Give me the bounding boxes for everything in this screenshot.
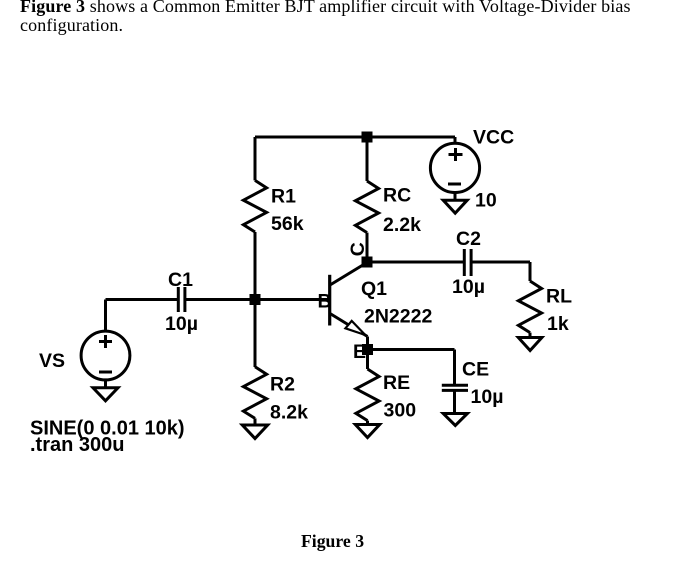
svg-text:RC: RC (383, 185, 411, 207)
svg-text:10: 10 (475, 190, 497, 212)
svg-text:1k: 1k (547, 313, 569, 335)
svg-text:10µ: 10µ (452, 276, 485, 298)
svg-text:C1: C1 (168, 269, 193, 291)
svg-text:Q1: Q1 (361, 278, 387, 300)
svg-text:300: 300 (384, 400, 417, 422)
svg-text:R1: R1 (271, 186, 296, 208)
svg-text:8.2k: 8.2k (270, 402, 308, 424)
svg-text:B: B (318, 291, 332, 313)
svg-text:R2: R2 (270, 374, 295, 396)
svg-text:E: E (353, 341, 366, 363)
svg-text:C: C (347, 242, 369, 256)
svg-text:56k: 56k (271, 213, 304, 235)
svg-text:RE: RE (383, 372, 410, 394)
svg-text:2.2k: 2.2k (383, 214, 421, 236)
svg-text:VCC: VCC (473, 127, 514, 149)
svg-text:CE: CE (462, 359, 489, 381)
svg-text:10µ: 10µ (165, 313, 198, 335)
svg-text:.tran 300u: .tran 300u (30, 434, 124, 456)
svg-text:10µ: 10µ (471, 386, 504, 408)
svg-text:VS: VS (39, 350, 65, 372)
svg-text:RL: RL (546, 286, 572, 308)
svg-text:C2: C2 (456, 228, 481, 250)
svg-text:2N2222: 2N2222 (364, 306, 432, 328)
